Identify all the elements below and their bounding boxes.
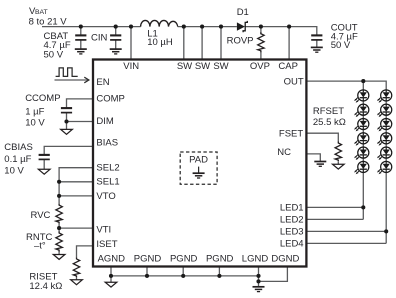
svg-text:1 µF: 1 µF [25, 106, 44, 117]
svg-text:PGND: PGND [170, 254, 198, 265]
svg-text:RFSET: RFSET [313, 106, 344, 117]
svg-text:PGND: PGND [134, 254, 162, 265]
svg-text:50 V: 50 V [44, 49, 64, 60]
svg-text:ROVP: ROVP [227, 35, 254, 46]
svg-text:CBIAS: CBIAS [4, 142, 33, 153]
svg-text:SW: SW [195, 61, 210, 72]
svg-text:0.1 µF: 0.1 µF [4, 154, 31, 165]
svg-text:COMP: COMP [96, 94, 125, 105]
svg-text:SEL1: SEL1 [96, 176, 119, 187]
svg-text:RVC: RVC [31, 210, 51, 221]
svg-text:–t°: –t° [34, 240, 46, 251]
svg-text:12.4 kΩ: 12.4 kΩ [29, 281, 62, 292]
svg-text:LED1: LED1 [280, 203, 304, 214]
svg-text:DIM: DIM [96, 116, 114, 127]
svg-text:VTI: VTI [96, 224, 111, 235]
svg-text:CIN: CIN [91, 33, 108, 44]
svg-text:LED2: LED2 [280, 215, 304, 226]
svg-text:VTO: VTO [96, 191, 115, 202]
svg-text:D1: D1 [237, 7, 249, 18]
svg-text:LED4: LED4 [280, 239, 304, 250]
svg-text:CCOMP: CCOMP [25, 93, 60, 104]
svg-text:SEL2: SEL2 [96, 162, 119, 173]
svg-text:FSET: FSET [279, 129, 303, 140]
svg-text:SW: SW [213, 61, 228, 72]
svg-text:25.5 kΩ: 25.5 kΩ [313, 117, 346, 128]
svg-text:50 V: 50 V [331, 40, 351, 51]
svg-text:8 to 21 V: 8 to 21 V [29, 16, 68, 27]
svg-text:10 µH: 10 µH [147, 37, 173, 48]
svg-text:AGND: AGND [98, 254, 126, 265]
svg-text:10 V: 10 V [4, 165, 24, 176]
svg-text:BIAS: BIAS [96, 137, 118, 148]
svg-text:PGND: PGND [206, 254, 234, 265]
svg-text:OVP: OVP [250, 61, 270, 72]
svg-text:CAP: CAP [278, 61, 298, 72]
svg-text:VIN: VIN [123, 61, 139, 72]
svg-text:SW: SW [177, 61, 192, 72]
svg-text:ISET: ISET [96, 239, 117, 250]
svg-text:NC: NC [277, 147, 291, 158]
svg-text:EN: EN [96, 77, 109, 88]
svg-text:BAT: BAT [35, 9, 48, 16]
svg-text:OUT: OUT [284, 76, 304, 87]
svg-text:PAD: PAD [189, 155, 208, 166]
svg-text:DGND: DGND [271, 254, 299, 265]
svg-text:LGND: LGND [242, 254, 269, 265]
svg-text:LED3: LED3 [280, 227, 304, 238]
svg-text:10 V: 10 V [25, 117, 45, 128]
